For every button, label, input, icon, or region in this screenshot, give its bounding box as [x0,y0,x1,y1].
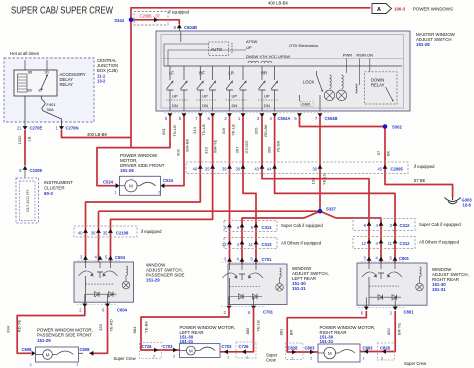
svg-text:316: 316 [221,127,226,134]
svg-text:60-3: 60-3 [44,191,53,196]
svg-text:45: 45 [377,167,382,172]
svg-text:C504B: C504B [184,25,197,30]
svg-text:C608: C608 [80,347,91,352]
svg-text:313: 313 [204,146,209,153]
svg-text:151-29: 151-29 [146,278,160,283]
svg-text:30A: 30A [47,107,54,112]
svg-text:334: 334 [6,325,11,332]
svg-text:1332: 1332 [17,135,22,145]
svg-text:LB: LB [27,136,32,141]
svg-text:320: 320 [254,127,259,134]
svg-text:YE-LG: YE-LG [322,173,327,185]
svg-text:C270N: C270N [66,126,79,131]
svg-text:C504A: C504A [278,116,291,121]
svg-text:C312: C312 [400,241,411,246]
svg-text:57 BK: 57 BK [414,178,426,183]
svg-text:Super Cab if equipped: Super Cab if equipped [419,222,461,227]
svg-text:RELAY: RELAY [60,82,74,87]
svg-text:OTD Electronics: OTD Electronics [289,43,318,48]
svg-text:C726: C726 [142,344,153,349]
svg-text:BK: BK [386,151,391,157]
svg-text:PWR: PWR [343,53,352,58]
svg-text:GND: GND [302,101,311,106]
svg-text:40: 40 [193,167,198,172]
svg-text:881: 881 [279,328,284,335]
svg-text:Super Crew: Super Crew [114,356,137,361]
svg-text:CLUSTER: CLUSTER [44,186,65,191]
svg-text:C270E: C270E [30,126,43,131]
svg-text:if equipped: if equipped [414,164,435,169]
svg-text:UP: UP [202,94,208,99]
svg-text:C701: C701 [263,310,274,315]
svg-text:399: 399 [267,146,272,153]
svg-text:12: 12 [222,242,227,247]
svg-text:UP: UP [232,94,238,99]
svg-text:151-31: 151-31 [292,286,306,291]
svg-text:40: 40 [78,231,83,236]
svg-text:C313: C313 [262,242,273,247]
svg-text:INSTRUMENT: INSTRUMENT [44,180,73,185]
svg-text:C312: C312 [400,223,411,228]
svg-text:C604: C604 [117,308,128,313]
svg-text:151-31: 151-31 [432,287,446,292]
svg-text:UP: UP [172,94,178,99]
svg-text:C524: C524 [103,180,114,185]
svg-text:C2208: C2208 [30,168,43,173]
svg-text:if equipped: if equipped [141,229,162,234]
svg-text:LOCK: LOCK [303,79,315,84]
svg-text:C313: C313 [262,225,273,230]
svg-text:C2108: C2108 [116,231,129,236]
svg-text:TN-LB: TN-LB [201,124,206,136]
svg-text:21: 21 [17,126,22,131]
svg-text:902: 902 [176,148,181,155]
svg-text:ATSW: ATSW [246,39,257,44]
svg-text:C828: C828 [380,346,391,351]
svg-text:if equipped: if equipped [169,10,190,15]
svg-text:36: 36 [312,167,317,172]
svg-text:12: 12 [361,241,366,246]
svg-text:44: 44 [267,167,272,172]
svg-text:YE-LB: YE-LB [231,124,236,136]
svg-text:86: 86 [28,71,32,75]
svg-text:C803: C803 [363,346,374,351]
svg-text:151-31: 151-31 [320,339,334,344]
svg-text:M: M [328,351,332,356]
svg-text:151-29: 151-29 [37,338,51,343]
svg-text:C608: C608 [22,347,33,352]
svg-text:151-28: 151-28 [120,168,134,173]
svg-text:BR-YE: BR-YE [397,323,402,336]
svg-text:WH-YE: WH-YE [213,140,218,154]
svg-text:A: A [377,7,381,13]
svg-text:85: 85 [28,89,32,93]
svg-text:WH-BK: WH-BK [185,139,190,153]
svg-text:S337: S337 [326,207,336,212]
svg-text:333: 333 [98,323,103,330]
svg-text:882: 882 [386,327,391,334]
svg-text:YE-BK: YE-BK [276,140,281,152]
svg-text:13-2: 13-2 [97,79,106,84]
svg-text:DN: DN [264,103,270,108]
svg-text:35: 35 [103,231,108,236]
svg-text:BOX (CJB): BOX (CJB) [97,68,118,73]
svg-text:GY-OG: GY-OG [244,141,249,154]
svg-text:BR: BR [289,330,294,336]
svg-text:M: M [129,184,133,189]
svg-text:10-8: 10-8 [463,203,472,208]
svg-text:PASSENGER SIDE FRONT: PASSENGER SIDE FRONT [37,333,92,338]
svg-text:885: 885 [245,327,250,334]
svg-text:38: 38 [235,167,240,172]
svg-text:400 LB-BK: 400 LB-BK [268,1,288,6]
svg-text:UP: UP [246,45,252,50]
svg-text:YE-BK: YE-BK [144,321,149,333]
svg-text:43: 43 [254,167,259,172]
svg-text:M: M [189,348,193,353]
svg-text:151-31: 151-31 [180,339,194,344]
svg-text:11: 11 [388,241,393,246]
svg-text:RD-BK: RD-BK [263,124,268,137]
svg-text:307: 307 [235,146,240,153]
svg-text:DN: DN [367,53,373,58]
svg-text:YE-LB: YE-LB [256,320,261,332]
svg-text:POWER WINDOWS: POWER WINDOWS [413,7,453,12]
svg-text:DN: DN [202,103,208,108]
svg-text:30: 30 [45,71,49,75]
svg-text:C2095 - 37: C2095 - 37 [140,13,161,18]
svg-text:DN: DN [232,103,238,108]
svg-text:S302: S302 [392,125,402,130]
svg-text:C524: C524 [163,178,174,183]
svg-text:UP: UP [264,94,270,99]
svg-text:Super Crew: Super Crew [404,361,427,366]
svg-text:884: 884 [132,326,137,333]
svg-text:DLY ACC RY: DLY ACC RY [26,189,30,212]
svg-text:Super Cab if equipped: Super Cab if equipped [281,223,323,228]
svg-text:YE-RD: YE-RD [109,319,114,332]
svg-text:314: 314 [192,126,197,133]
svg-text:C604: C604 [115,255,126,260]
svg-text:All Others if equipped: All Others if equipped [281,241,322,246]
svg-text:961: 961 [161,127,166,134]
svg-text:AUTO: AUTO [211,47,223,52]
svg-text:C504B: C504B [325,116,338,121]
svg-text:35: 35 [205,167,210,172]
svg-text:C2095: C2095 [391,167,404,172]
svg-text:39: 39 [222,167,227,172]
svg-text:100-3: 100-3 [394,7,406,12]
svg-text:DN: DN [172,103,178,108]
svg-text:RD-YE: RD-YE [17,319,22,332]
svg-text:C801: C801 [399,256,410,261]
svg-text:M: M [46,352,50,357]
svg-text:S344: S344 [114,18,124,23]
svg-text:151-28: 151-28 [416,42,430,47]
svg-text:C803: C803 [305,346,316,351]
svg-text:All Others if equipped: All Others if equipped [419,240,460,245]
svg-text:DOWN: DOWN [371,77,384,82]
svg-text:DNSW VTH VCC UPSW: DNSW VTH VCC UPSW [246,54,290,59]
svg-text:193: 193 [311,177,316,184]
svg-text:SUPER CAB/ SUPER CREW: SUPER CAB/ SUPER CREW [11,5,113,17]
svg-text:57: 57 [376,150,381,155]
svg-text:Hot at all times: Hot at all times [10,51,40,56]
svg-text:TN-LB: TN-LB [172,125,177,137]
svg-text:11: 11 [249,242,254,247]
svg-text:C701: C701 [262,257,273,262]
svg-text:RELAY: RELAY [371,83,385,88]
svg-text:C703: C703 [222,344,233,349]
svg-text:C828: C828 [288,346,299,351]
svg-text:C726: C726 [239,344,250,349]
svg-text:C801: C801 [404,310,415,315]
svg-text:400 LB-BK: 400 LB-BK [87,132,107,137]
svg-text:36: 36 [91,231,96,236]
svg-text:RSIN: RSIN [356,53,366,58]
svg-text:Crew: Crew [266,358,277,363]
svg-text:C703: C703 [163,344,174,349]
